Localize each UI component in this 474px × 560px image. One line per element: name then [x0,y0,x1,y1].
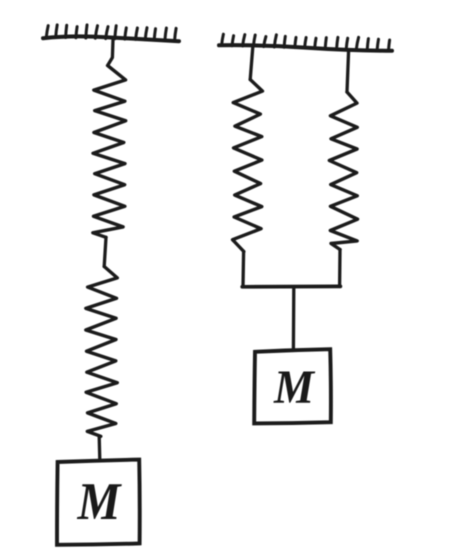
crossbar joining both springs (right system) [242,285,340,289]
rod from spring kA to crossbar [241,252,245,287]
mass box M (right system) [254,349,331,423]
svg-text:M: M [273,361,316,414]
ceiling (right support) [219,45,392,51]
spring k1 (upper spring, left system) [93,66,126,238]
mass box M (left system) [57,460,140,545]
hanger rod right (right system) [347,51,349,93]
ceiling hatching (left) [46,25,176,41]
hanger rod left (right system) [250,47,253,80]
spring kA (left spring, right system) [233,80,263,252]
ceiling (left support) [43,36,179,41]
svg-text:M: M [77,473,123,531]
hanger rod from ceiling (left) [108,40,113,66]
middle connecting link (left system) [104,237,106,266]
ceiling hatching (right) [222,34,390,50]
spring k2 (lower spring, left system) [86,267,118,437]
spring kB (right spring, right system) [329,92,357,250]
rod from crossbar to mass (right system) [292,287,296,350]
rod from spring kB to crossbar [338,250,342,287]
rod from spring to mass (left system) [98,437,102,460]
